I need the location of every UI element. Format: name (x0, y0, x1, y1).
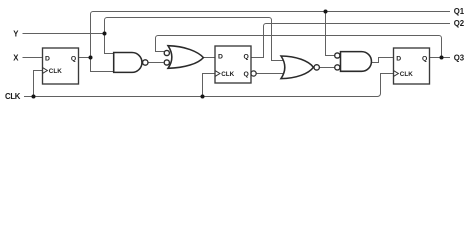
wire Q3 output to label (430, 57, 451, 59)
wire Y branch down to NAND U1 upper input (105, 34, 116, 54)
svg-text:CLK: CLK (221, 71, 234, 78)
U1 output bubble (143, 60, 148, 65)
OR gate with inverted inputs U2 (164, 46, 203, 69)
FF1 clock triangle (43, 68, 48, 74)
wire CLK riser to FF2 (203, 74, 216, 97)
U4 input bubble bottom (335, 65, 340, 70)
wire Q1 branch down to NAND U1 lower input (91, 58, 116, 72)
svg-text:D: D (218, 53, 223, 60)
U2 input bubble top (164, 50, 169, 55)
wire Q1 branch down to U4 upper input (326, 12, 335, 56)
wire Y branch up and across to U3 upper input (105, 18, 286, 61)
wire FF1.Q output to junction (79, 57, 91, 59)
svg-text:CLK: CLK (400, 71, 413, 78)
wire CLK rail (24, 74, 394, 97)
U4 input bubble top (335, 53, 340, 58)
wire Q3 feedback up and across to U2 upper input (156, 36, 442, 58)
wire Q1 net: junction up, across top to Q1 label (91, 12, 451, 58)
wire Q2 net: FF2.Q up and across to Q2 label (251, 24, 450, 58)
svg-text:CLK: CLK (5, 92, 21, 101)
node Q3 junction dot (440, 56, 444, 60)
svg-text:D: D (396, 55, 401, 62)
wire U2 output to FF2.D (203, 57, 215, 59)
NAND gate U1 (114, 53, 148, 73)
U3 output bubble (314, 65, 319, 70)
FF3 clock triangle (394, 71, 399, 77)
NOR gate U3 (281, 56, 319, 79)
svg-text:D: D (45, 55, 50, 62)
svg-text:Q: Q (422, 55, 427, 62)
node Y junction dot (103, 32, 107, 36)
svg-text:X: X (13, 53, 19, 62)
node FF1.Q junction dot (89, 56, 93, 60)
flip-flop FF3 (394, 48, 430, 84)
AND gate with inverted inputs U4 (335, 52, 372, 72)
wire CLK riser to FF1 (34, 71, 43, 97)
node CLK FF1 junction dot (32, 95, 36, 99)
wire FF2.Qbar to U3 lower input (256, 73, 287, 75)
node Q1 line junction dot (324, 10, 328, 14)
FF2 Qbar bubble (251, 71, 256, 76)
node CLK FF2 junction dot (201, 95, 205, 99)
U2 input bubble bottom (164, 60, 169, 65)
svg-text:Y: Y (13, 29, 19, 38)
FF2 clock triangle (215, 71, 220, 77)
wire X input to FF1.D (23, 57, 43, 59)
svg-text:Q: Q (71, 55, 76, 62)
flip-flop FF2 (215, 46, 256, 83)
flip-flop FF1 (43, 48, 79, 84)
wire NAND U1 output to U2 lower input (148, 62, 163, 64)
wire Y input (23, 33, 105, 35)
svg-text:CLK: CLK (49, 68, 62, 75)
svg-text:Q1: Q1 (454, 7, 465, 16)
wire U3 output to U4 lower input (320, 67, 335, 69)
svg-text:Q: Q (244, 53, 249, 60)
svg-text:Q: Q (244, 71, 249, 78)
svg-text:Q3: Q3 (454, 53, 465, 62)
svg-text:Q2: Q2 (454, 19, 465, 28)
wire U4 output jog up to FF3.D (371, 58, 393, 63)
